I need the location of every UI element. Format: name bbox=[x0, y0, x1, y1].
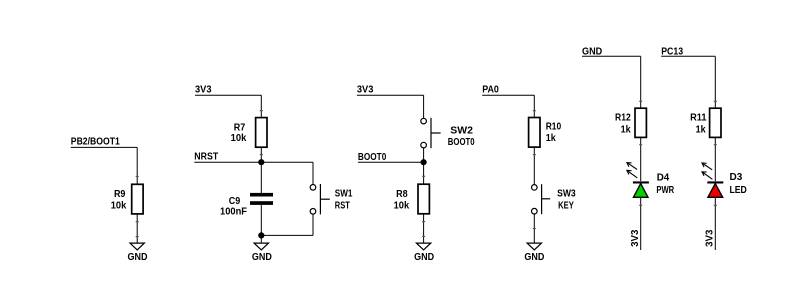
wire D3 to 3V3 bbox=[714, 197, 716, 250]
wire C9 to bottom node bbox=[260, 205, 262, 236]
pin end tick R10 pin 1 bbox=[533, 110, 536, 111]
svg-text:R10: R10 bbox=[546, 122, 562, 133]
svg-text:GND: GND bbox=[252, 252, 272, 263]
junction NRST node bbox=[258, 159, 264, 165]
LED D3 emission arrow 1 bbox=[702, 163, 712, 170]
svg-text:3V3: 3V3 bbox=[195, 85, 212, 96]
wire PA0 horizontal bbox=[482, 94, 534, 96]
LED D3 body bbox=[708, 184, 723, 198]
pin end tick R12 pin 1 bbox=[639, 101, 642, 102]
wire NRST to C9 bbox=[260, 162, 262, 193]
svg-text:GND: GND bbox=[582, 46, 602, 57]
wire NRST horizontal bbox=[194, 161, 313, 163]
svg-text:SW1: SW1 bbox=[335, 188, 353, 199]
wire R11 to D3 bbox=[714, 137, 716, 181]
svg-text:PA0: PA0 bbox=[482, 85, 499, 96]
svg-text:KEY: KEY bbox=[558, 201, 574, 212]
wire R7 to NRST node bbox=[260, 147, 262, 162]
svg-text:3V3: 3V3 bbox=[705, 229, 716, 247]
svg-text:R11: R11 bbox=[690, 113, 707, 124]
pin end tick R8 pin 2 bbox=[422, 221, 425, 222]
capacitor C9 plate 1 bbox=[250, 193, 273, 197]
svg-text:C9: C9 bbox=[229, 196, 241, 207]
svg-text:SW3: SW3 bbox=[557, 188, 576, 199]
wire R8 to GND bbox=[423, 214, 425, 243]
svg-text:R12: R12 bbox=[615, 113, 631, 124]
switch SW1 contact top bbox=[310, 185, 316, 191]
svg-text:R9: R9 bbox=[114, 189, 126, 200]
svg-text:GND: GND bbox=[414, 252, 434, 263]
LED D4 emission arrow 2 bbox=[627, 170, 637, 178]
wire GND horizontal section 5 bbox=[582, 55, 641, 57]
wire PB2/BOOT1 vertical to R9 bbox=[136, 147, 138, 184]
LED D4 body bbox=[633, 184, 648, 198]
wire PB2/BOOT1 horizontal bbox=[71, 146, 137, 148]
switch SW3 contact top bbox=[532, 185, 538, 191]
wire PC13 horizontal bbox=[661, 55, 715, 57]
junction bottom node section 2 bbox=[258, 232, 264, 238]
svg-text:100nF: 100nF bbox=[220, 206, 247, 217]
pin end tick R7 pin 1 bbox=[260, 110, 263, 111]
switch SW3 contact bottom bbox=[532, 208, 538, 214]
svg-text:PC13: PC13 bbox=[661, 46, 683, 57]
wire R10 to SW3 bbox=[533, 147, 535, 184]
resistor R10 bbox=[529, 118, 540, 148]
wire R12 to D4 bbox=[640, 137, 642, 181]
switch SW2 contact top bbox=[421, 118, 427, 124]
pin end tick R10 pin 2 bbox=[533, 154, 536, 155]
svg-text:10k: 10k bbox=[394, 200, 410, 211]
LED D3 emission arrow 2 bbox=[702, 172, 712, 180]
wire SW3 to GND bbox=[533, 214, 535, 243]
resistor R11 bbox=[710, 108, 721, 137]
pin end tick GND symbol bbox=[136, 236, 139, 237]
svg-text:10k: 10k bbox=[231, 133, 247, 144]
wire 3V3 horizontal section 3 bbox=[357, 94, 424, 96]
svg-text:NRST: NRST bbox=[194, 151, 218, 162]
svg-text:10k: 10k bbox=[111, 200, 127, 211]
pin end tick SW3 pin 2 bbox=[533, 228, 536, 229]
svg-text:R7: R7 bbox=[234, 122, 246, 133]
pin end tick R9 pin 1 bbox=[136, 176, 139, 177]
wire 3V3 horizontal bbox=[195, 94, 261, 96]
wire PA0 to R10 bbox=[533, 95, 535, 117]
svg-text:D4: D4 bbox=[657, 173, 670, 184]
svg-text:LED: LED bbox=[730, 185, 747, 196]
pin end tick R11 pin 1 bbox=[714, 101, 717, 102]
pin end tick D4 pin 2 bbox=[639, 205, 642, 206]
switch SW3 actuator bbox=[541, 184, 543, 214]
wire SW2 to BOOT0 node bbox=[423, 148, 425, 162]
svg-text:1k: 1k bbox=[696, 124, 706, 135]
LED D3 cathode bar bbox=[707, 181, 723, 183]
junction BOOT0 node bbox=[421, 159, 427, 165]
svg-text:PWR: PWR bbox=[656, 185, 674, 196]
wire 3V3 vertical to R7 bbox=[260, 95, 262, 117]
wire PC13 to R11 bbox=[714, 56, 716, 108]
svg-text:D3: D3 bbox=[730, 172, 743, 183]
pin end tick R9 pin 2 bbox=[136, 221, 139, 222]
switch SW3 actuator tick bbox=[542, 198, 551, 200]
wire NRST to SW1 top bbox=[312, 162, 314, 184]
pin end tick GND symbol section 3 bbox=[422, 236, 425, 237]
LED D4 cathode bar bbox=[633, 181, 649, 183]
pin end tick R11 pin 2 bbox=[714, 144, 717, 145]
svg-text:RST: RST bbox=[335, 201, 350, 212]
ground symbol section 1 bbox=[130, 243, 144, 250]
pin end tick R7 pin 2 bbox=[260, 154, 263, 155]
ground symbol section 3 bbox=[416, 243, 430, 250]
svg-text:GND: GND bbox=[128, 252, 148, 263]
wire BOOT0 to R8 bbox=[423, 162, 425, 184]
svg-text:R8: R8 bbox=[396, 189, 408, 200]
svg-text:BOOT0: BOOT0 bbox=[358, 152, 387, 163]
svg-text:3V3: 3V3 bbox=[357, 85, 374, 96]
svg-text:PB2/BOOT1: PB2/BOOT1 bbox=[71, 136, 120, 147]
resistor R7 bbox=[256, 118, 267, 148]
svg-text:GND: GND bbox=[524, 252, 544, 263]
svg-text:3V3: 3V3 bbox=[630, 229, 641, 247]
wire node to GND section 2 bbox=[260, 235, 262, 243]
pin end tick D3 pin 2 bbox=[714, 205, 717, 206]
resistor R9 bbox=[132, 184, 143, 214]
wire GND to R12 bbox=[640, 56, 642, 108]
wire D4 to 3V3 bbox=[640, 197, 642, 250]
resistor R8 bbox=[418, 184, 429, 214]
pin end tick R12 pin 2 bbox=[639, 144, 642, 145]
wire 3V3 to SW2 bbox=[423, 95, 425, 118]
wire BOOT0 horizontal bbox=[358, 161, 424, 163]
switch SW1 actuator tick bbox=[320, 198, 329, 200]
svg-text:BOOT0: BOOT0 bbox=[448, 137, 475, 148]
ground symbol section 4 bbox=[527, 243, 541, 250]
switch SW2 actuator tick bbox=[431, 132, 441, 134]
wire R9 to GND bbox=[136, 214, 138, 243]
switch SW2 actuator bbox=[430, 118, 432, 148]
switch SW1 actuator bbox=[319, 184, 321, 214]
LED D4 emission arrow 1 bbox=[627, 163, 637, 170]
switch SW2 contact bottom bbox=[421, 142, 427, 148]
svg-text:1k: 1k bbox=[621, 124, 631, 135]
pin end tick R8 pin 1 bbox=[422, 176, 425, 177]
wire SW1 bottom bbox=[312, 214, 314, 235]
wire bottom horizontal to SW1 bbox=[261, 234, 313, 236]
ground symbol section 2 bbox=[254, 243, 268, 250]
resistor R12 bbox=[635, 108, 646, 137]
svg-text:1k: 1k bbox=[546, 133, 556, 144]
capacitor C9 plate 2 bbox=[250, 201, 273, 205]
switch SW1 contact bottom bbox=[310, 209, 316, 215]
svg-text:SW2: SW2 bbox=[450, 125, 473, 136]
